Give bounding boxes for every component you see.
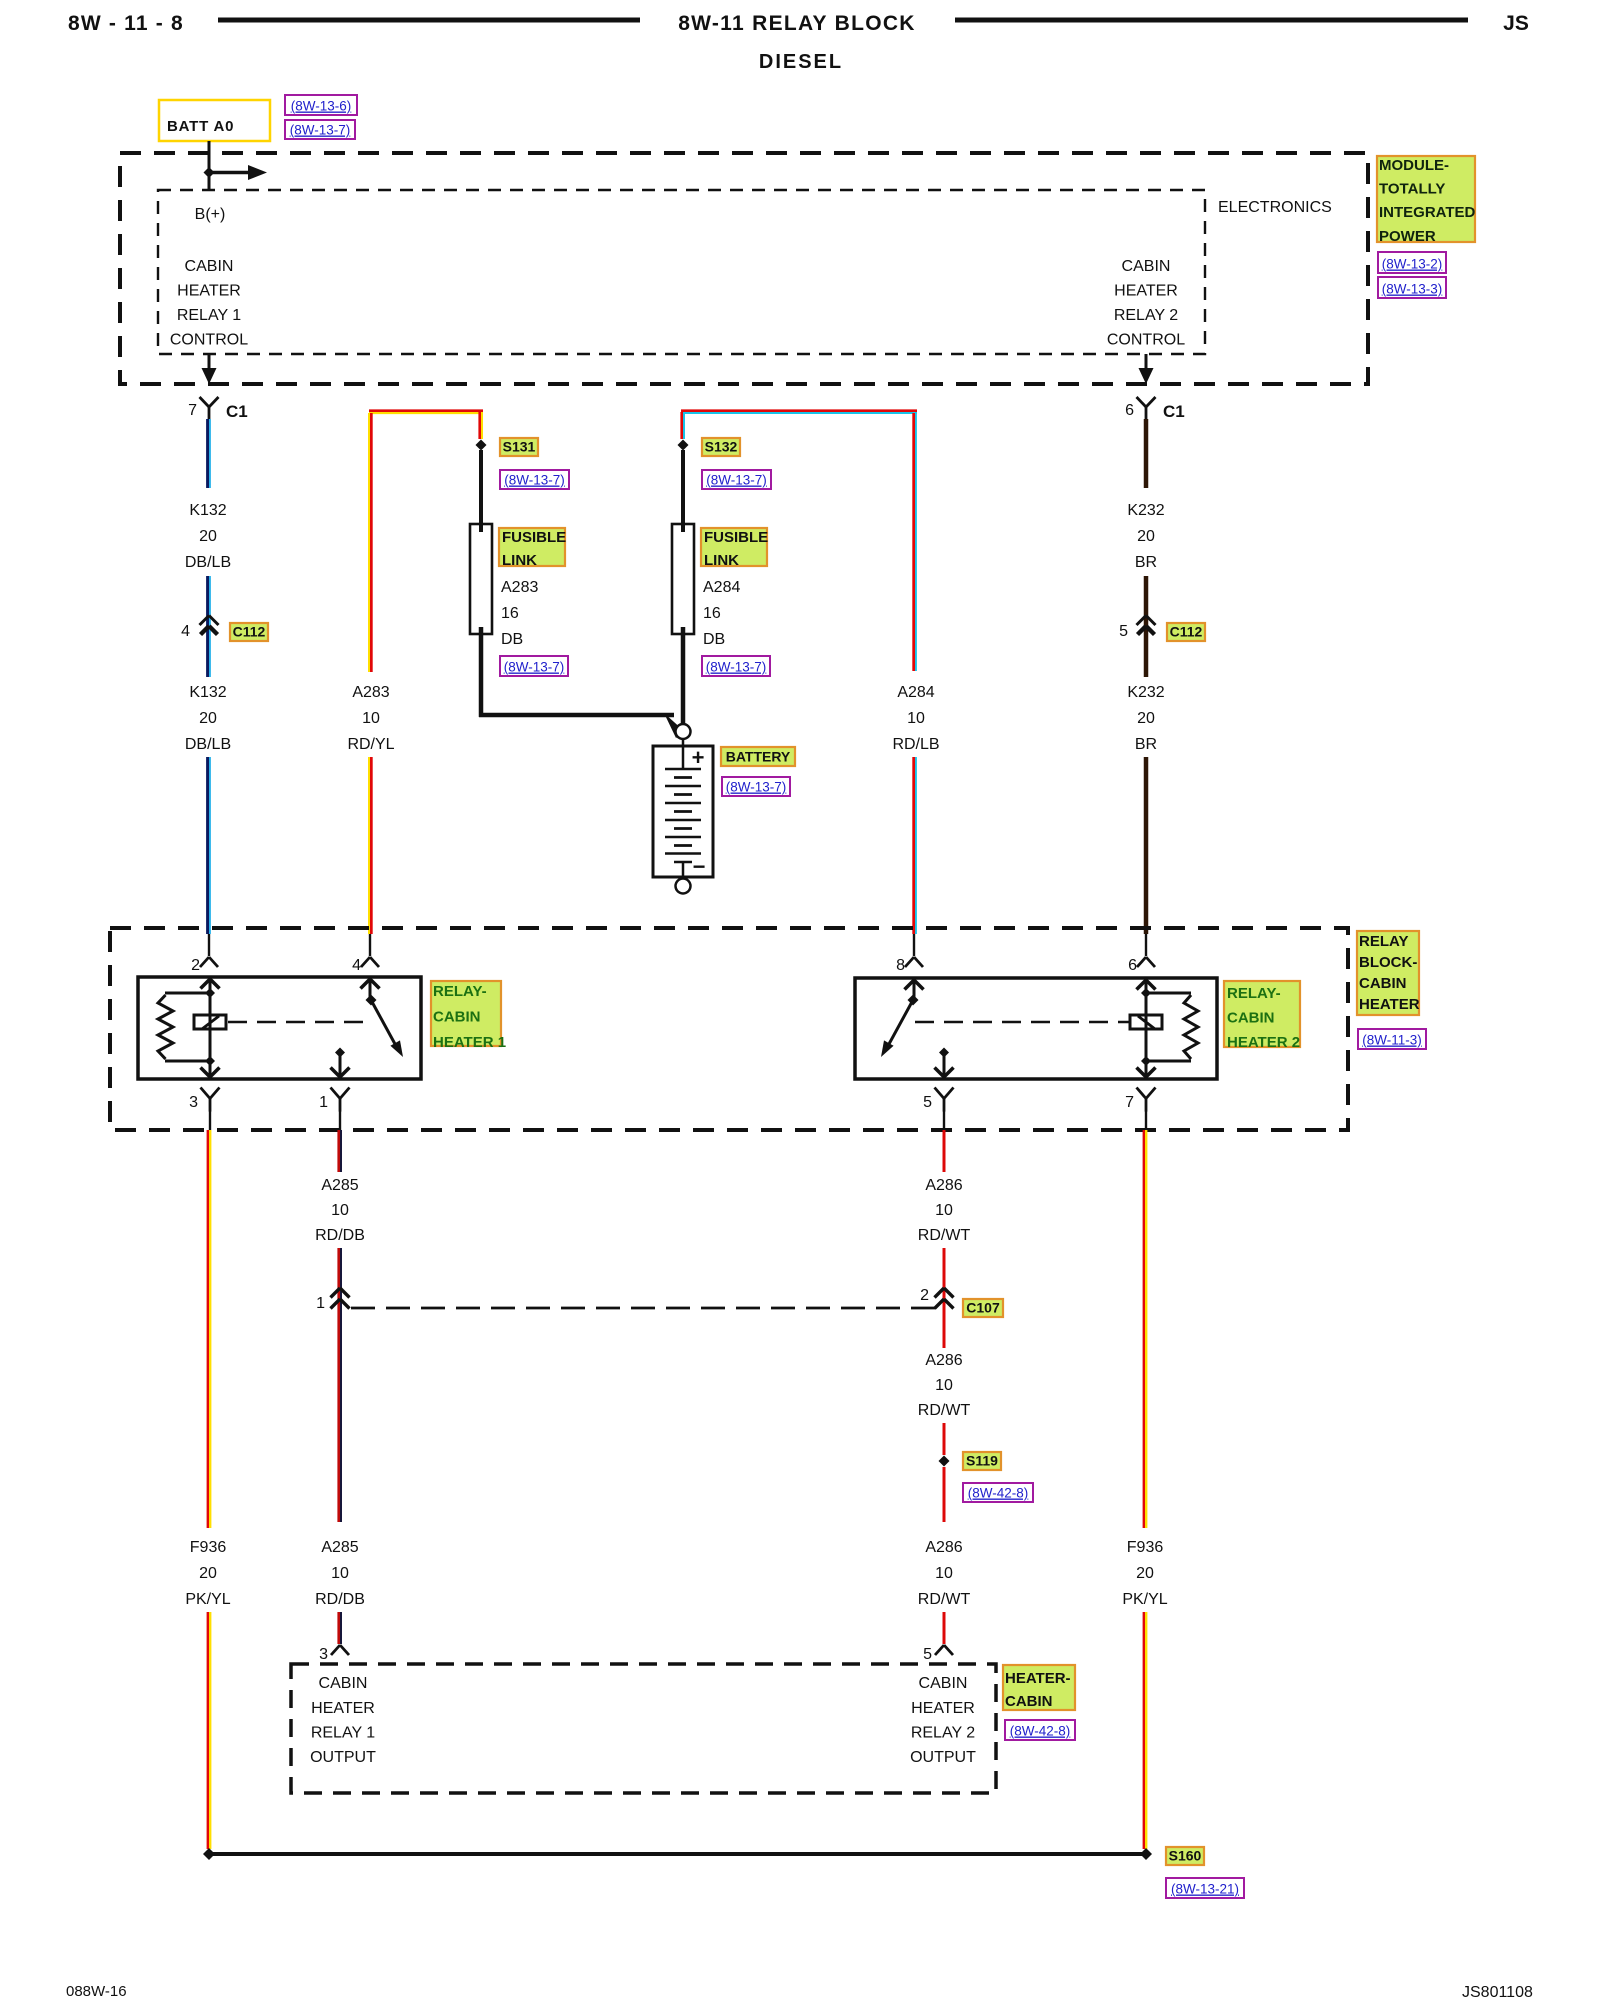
- svg-text:DB: DB: [703, 631, 725, 648]
- svg-text:16: 16: [501, 605, 519, 622]
- svg-text:RD/WT: RD/WT: [918, 1227, 971, 1244]
- svg-text:BLOCK-: BLOCK-: [1359, 954, 1417, 971]
- svg-text:20: 20: [1137, 710, 1155, 727]
- svg-text:HEATER 2: HEATER 2: [1227, 1034, 1300, 1051]
- svg-text:3: 3: [319, 1646, 328, 1663]
- svg-text:ELECTRONICS: ELECTRONICS: [1218, 199, 1332, 216]
- svg-text:RELAY 2: RELAY 2: [911, 1725, 975, 1742]
- svg-text:5: 5: [923, 1094, 932, 1111]
- svg-text:CABIN: CABIN: [1122, 258, 1171, 275]
- svg-text:K132: K132: [189, 502, 226, 519]
- svg-text:HEATER: HEATER: [177, 283, 241, 300]
- svg-text:7: 7: [1125, 1094, 1134, 1111]
- svg-text:F936: F936: [1127, 1539, 1164, 1556]
- svg-text:C107: C107: [966, 1300, 1000, 1316]
- svg-text:LINK: LINK: [704, 552, 739, 569]
- svg-text:CABIN: CABIN: [1005, 1693, 1053, 1710]
- svg-text:4: 4: [352, 957, 361, 974]
- svg-text:BATT A0: BATT A0: [167, 118, 234, 135]
- svg-text:088W-16: 088W-16: [66, 1983, 127, 2000]
- svg-text:DB/LB: DB/LB: [185, 736, 231, 753]
- svg-text:CABIN: CABIN: [919, 1675, 968, 1692]
- svg-text:10: 10: [362, 710, 380, 727]
- svg-text:RELAY 1: RELAY 1: [311, 1725, 375, 1742]
- svg-text:C1: C1: [1163, 402, 1185, 421]
- svg-text:1: 1: [319, 1094, 328, 1111]
- svg-text:20: 20: [1136, 1565, 1154, 1582]
- svg-text:3: 3: [189, 1094, 198, 1111]
- svg-text:LINK: LINK: [502, 552, 537, 569]
- svg-text:CABIN: CABIN: [433, 1009, 481, 1026]
- svg-text:10: 10: [331, 1565, 349, 1582]
- svg-text:CONTROL: CONTROL: [1107, 332, 1185, 349]
- svg-text:DB/LB: DB/LB: [185, 554, 231, 571]
- svg-text:OUTPUT: OUTPUT: [910, 1749, 976, 1766]
- svg-text:RD/WT: RD/WT: [918, 1591, 971, 1608]
- svg-text:BATTERY: BATTERY: [726, 749, 791, 765]
- svg-text:JS801108: JS801108: [1462, 1984, 1533, 2000]
- svg-text:10: 10: [331, 1202, 349, 1219]
- svg-text:(8W-13-7): (8W-13-7): [726, 780, 787, 795]
- svg-text:PK/YL: PK/YL: [1122, 1591, 1167, 1608]
- svg-text:A283: A283: [501, 579, 538, 596]
- svg-text:+: +: [692, 745, 705, 770]
- svg-text:RELAY-: RELAY-: [433, 983, 487, 1000]
- svg-text:8W-11 RELAY BLOCK: 8W-11 RELAY BLOCK: [678, 12, 916, 35]
- svg-text:A286: A286: [925, 1352, 962, 1369]
- svg-text:BR: BR: [1135, 554, 1157, 571]
- svg-text:HEATER-: HEATER-: [1005, 1670, 1071, 1687]
- svg-text:HEATER: HEATER: [911, 1700, 975, 1717]
- svg-text:2: 2: [191, 957, 200, 974]
- svg-text:A286: A286: [925, 1177, 962, 1194]
- svg-text:RELAY 1: RELAY 1: [177, 307, 241, 324]
- svg-text:(8W-42-8): (8W-42-8): [1010, 1724, 1071, 1739]
- svg-text:6: 6: [1128, 957, 1137, 974]
- svg-text:HEATER: HEATER: [1114, 283, 1178, 300]
- svg-text:HEATER: HEATER: [311, 1700, 375, 1717]
- svg-text:10: 10: [907, 710, 925, 727]
- svg-text:B(+): B(+): [195, 206, 226, 223]
- svg-text:RD/DB: RD/DB: [315, 1591, 365, 1608]
- svg-text:HEATER 1: HEATER 1: [433, 1034, 506, 1051]
- svg-text:RD/YL: RD/YL: [347, 736, 394, 753]
- svg-text:CABIN: CABIN: [185, 258, 234, 275]
- svg-text:(8W-13-2): (8W-13-2): [1382, 257, 1443, 272]
- svg-text:(8W-13-6): (8W-13-6): [291, 99, 352, 114]
- svg-text:INTEGRATED: INTEGRATED: [1379, 204, 1476, 221]
- svg-text:RELAY 2: RELAY 2: [1114, 307, 1178, 324]
- svg-text:S119: S119: [966, 1453, 998, 1469]
- svg-text:A285: A285: [321, 1539, 358, 1556]
- svg-text:6: 6: [1125, 402, 1134, 419]
- svg-text:(8W-13-3): (8W-13-3): [1382, 282, 1443, 297]
- svg-text:5: 5: [923, 1646, 932, 1663]
- svg-text:16: 16: [703, 605, 721, 622]
- svg-text:FUSIBLE: FUSIBLE: [704, 529, 768, 546]
- svg-text:RELAY: RELAY: [1359, 933, 1408, 950]
- svg-text:S160: S160: [1169, 1848, 1202, 1864]
- svg-text:K232: K232: [1127, 502, 1164, 519]
- svg-text:JS: JS: [1503, 12, 1529, 35]
- svg-text:8W - 11 - 8: 8W - 11 - 8: [68, 12, 184, 35]
- svg-text:MODULE-: MODULE-: [1379, 157, 1449, 174]
- svg-text:(8W-13-7): (8W-13-7): [504, 660, 565, 675]
- svg-text:FUSIBLE: FUSIBLE: [502, 529, 566, 546]
- svg-text:RD/DB: RD/DB: [315, 1227, 365, 1244]
- svg-text:A284: A284: [703, 579, 740, 596]
- svg-text:(8W-13-7): (8W-13-7): [504, 473, 565, 488]
- svg-text:20: 20: [1137, 528, 1155, 545]
- svg-text:POWER: POWER: [1379, 228, 1436, 245]
- svg-text:(8W-13-7): (8W-13-7): [290, 123, 351, 138]
- svg-text:OUTPUT: OUTPUT: [310, 1749, 376, 1766]
- svg-text:(8W-13-7): (8W-13-7): [706, 473, 767, 488]
- svg-text:HEATER: HEATER: [1359, 996, 1420, 1013]
- svg-text:C112: C112: [233, 624, 266, 640]
- svg-text:CABIN: CABIN: [1227, 1010, 1275, 1027]
- svg-text:C112: C112: [1170, 624, 1203, 640]
- svg-text:7: 7: [188, 402, 197, 419]
- svg-text:20: 20: [199, 1565, 217, 1582]
- svg-text:8: 8: [896, 957, 905, 974]
- svg-text:CONTROL: CONTROL: [170, 332, 248, 349]
- svg-text:2: 2: [920, 1287, 929, 1304]
- svg-text:K132: K132: [189, 684, 226, 701]
- svg-text:−: −: [693, 854, 706, 879]
- svg-text:DIESEL: DIESEL: [759, 51, 843, 73]
- svg-text:20: 20: [199, 528, 217, 545]
- svg-text:A283: A283: [352, 684, 389, 701]
- svg-text:10: 10: [935, 1202, 953, 1219]
- svg-text:4: 4: [181, 623, 190, 640]
- svg-text:20: 20: [199, 710, 217, 727]
- svg-text:F936: F936: [190, 1539, 227, 1556]
- svg-text:DB: DB: [501, 631, 523, 648]
- svg-text:1: 1: [316, 1295, 325, 1312]
- svg-text:RELAY-: RELAY-: [1227, 985, 1281, 1002]
- svg-text:A284: A284: [897, 684, 934, 701]
- svg-text:(8W-42-8): (8W-42-8): [968, 1486, 1029, 1501]
- svg-text:10: 10: [935, 1565, 953, 1582]
- svg-text:CABIN: CABIN: [319, 1675, 368, 1692]
- svg-text:S131: S131: [503, 439, 536, 455]
- svg-text:TOTALLY: TOTALLY: [1379, 181, 1445, 198]
- svg-text:C1: C1: [226, 402, 248, 421]
- svg-text:(8W-13-7): (8W-13-7): [706, 660, 767, 675]
- svg-text:BR: BR: [1135, 736, 1157, 753]
- svg-text:A285: A285: [321, 1177, 358, 1194]
- svg-text:CABIN: CABIN: [1359, 975, 1407, 992]
- svg-text:S132: S132: [705, 439, 738, 455]
- svg-text:RD/WT: RD/WT: [918, 1402, 971, 1419]
- svg-text:A286: A286: [925, 1539, 962, 1556]
- svg-text:PK/YL: PK/YL: [185, 1591, 230, 1608]
- svg-text:10: 10: [935, 1377, 953, 1394]
- svg-text:K232: K232: [1127, 684, 1164, 701]
- svg-text:5: 5: [1119, 623, 1128, 640]
- svg-text:(8W-13-21): (8W-13-21): [1171, 1882, 1239, 1897]
- svg-text:RD/LB: RD/LB: [892, 736, 939, 753]
- svg-text:(8W-11-3): (8W-11-3): [1362, 1033, 1422, 1048]
